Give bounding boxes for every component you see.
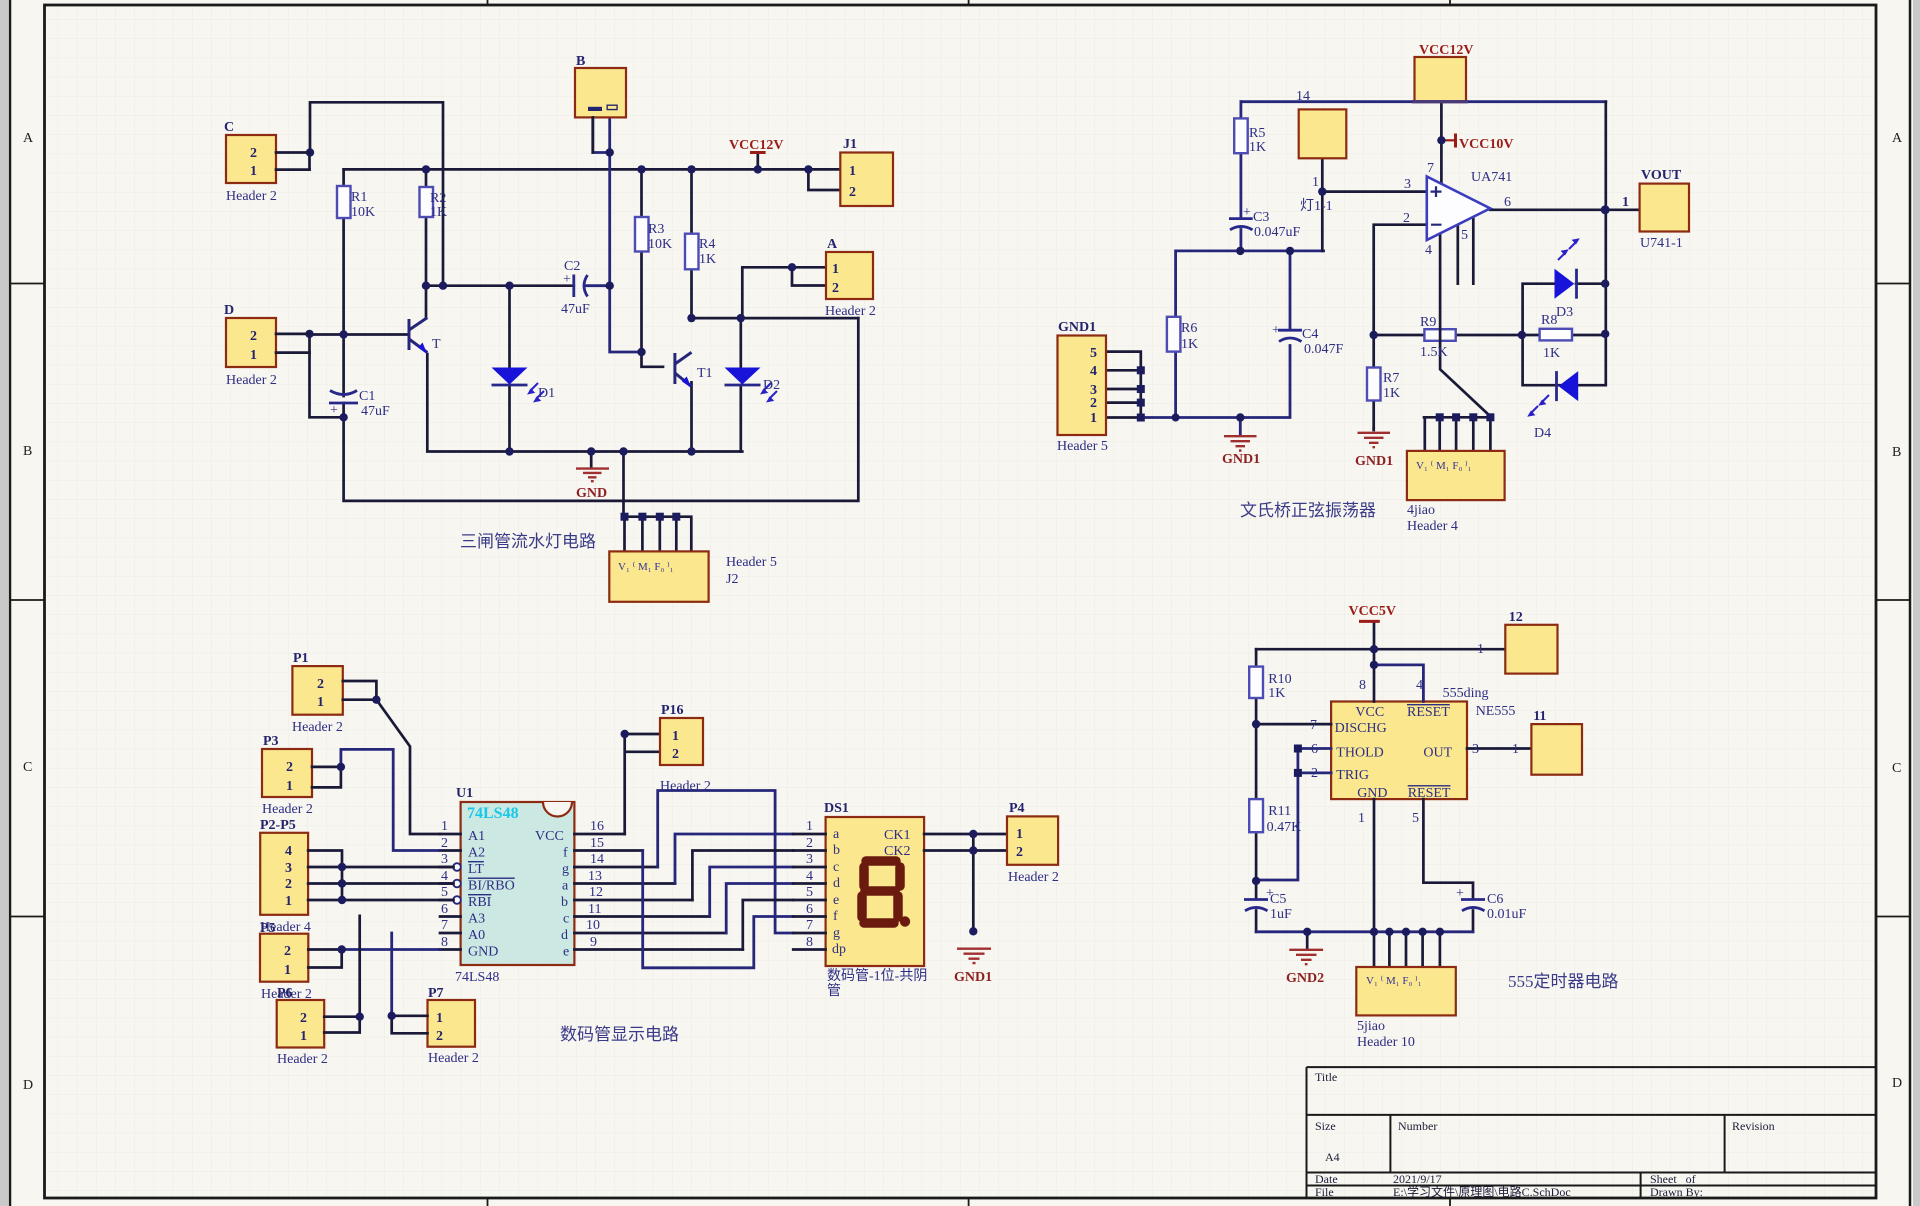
svg-text:Date: Date	[1315, 1172, 1338, 1186]
svg-text:1K: 1K	[1383, 386, 1400, 401]
svg-text:R4: R4	[699, 237, 715, 252]
svg-text:4: 4	[1416, 678, 1423, 693]
svg-text:Header 10: Header 10	[1357, 1035, 1415, 1050]
svg-text:2: 2	[806, 836, 813, 851]
svg-text:D: D	[1892, 1076, 1902, 1091]
svg-text:+: +	[1243, 205, 1251, 220]
svg-text:GND: GND	[468, 945, 498, 960]
svg-text:1: 1	[317, 695, 324, 710]
svg-text:1K: 1K	[1181, 337, 1198, 352]
svg-text:5: 5	[1461, 228, 1468, 243]
svg-text:UA741: UA741	[1471, 170, 1512, 185]
svg-text:R7: R7	[1383, 371, 1399, 386]
svg-text:Header 2: Header 2	[1008, 870, 1059, 885]
svg-text:12: 12	[589, 885, 603, 900]
svg-text:1K: 1K	[1249, 140, 1266, 155]
svg-text:16: 16	[590, 819, 604, 834]
svg-text:74LS48: 74LS48	[455, 970, 499, 985]
svg-text:Header 2: Header 2	[660, 779, 711, 794]
svg-text:GND1: GND1	[954, 970, 992, 985]
svg-text:C1: C1	[359, 389, 375, 404]
svg-text:D3: D3	[1556, 305, 1573, 320]
svg-text:D: D	[23, 1078, 33, 1093]
svg-text:三闸管流水灯电路: 三闸管流水灯电路	[460, 532, 596, 551]
svg-text:a: a	[833, 827, 840, 842]
svg-text:A2: A2	[468, 846, 485, 861]
svg-text:NE555: NE555	[1476, 704, 1516, 719]
svg-text:15: 15	[590, 836, 604, 851]
svg-text:D4: D4	[1534, 426, 1551, 441]
svg-text:R1: R1	[351, 190, 367, 205]
svg-text:C3: C3	[1253, 210, 1269, 225]
svg-text:7: 7	[1310, 718, 1317, 733]
svg-text:1K: 1K	[699, 252, 716, 267]
svg-text:555ding: 555ding	[1443, 686, 1489, 701]
svg-text:3: 3	[806, 852, 813, 867]
svg-text:47uF: 47uF	[361, 404, 390, 419]
svg-text:5: 5	[441, 885, 448, 900]
svg-text:10: 10	[586, 918, 600, 933]
svg-text:1: 1	[250, 164, 257, 179]
svg-text:R2: R2	[430, 191, 446, 206]
svg-text:RESET: RESET	[1407, 705, 1450, 720]
svg-text:1: 1	[441, 819, 448, 834]
svg-text:5: 5	[806, 885, 813, 900]
svg-text:P4: P4	[1009, 801, 1025, 816]
svg-text:1: 1	[1090, 411, 1097, 426]
svg-text:0.047uF: 0.047uF	[1254, 225, 1301, 240]
svg-text:1: 1	[1358, 811, 1365, 826]
svg-text:VCC12V: VCC12V	[1419, 43, 1473, 58]
svg-text:c: c	[833, 860, 839, 875]
svg-text:1: 1	[286, 779, 293, 794]
svg-text:BI/RBO: BI/RBO	[468, 879, 515, 894]
svg-text:A: A	[23, 131, 34, 146]
svg-text:1: 1	[849, 164, 856, 179]
svg-text:R8: R8	[1541, 313, 1557, 328]
svg-text:1K: 1K	[1268, 686, 1285, 701]
svg-text:6: 6	[1311, 742, 1318, 757]
svg-text:6: 6	[806, 902, 813, 917]
svg-text:管: 管	[827, 983, 841, 999]
svg-text:555定时器电路: 555定时器电路	[1508, 972, 1619, 991]
svg-text:5: 5	[1090, 346, 1097, 361]
svg-text:1uF: 1uF	[1270, 907, 1292, 922]
svg-text:2021/9/17: 2021/9/17	[1393, 1172, 1442, 1186]
svg-text:74LS48: 74LS48	[467, 805, 519, 822]
svg-text:TRIG: TRIG	[1336, 768, 1369, 783]
svg-text:e: e	[833, 893, 839, 908]
svg-text:3: 3	[285, 861, 292, 876]
svg-text:VCC12V: VCC12V	[729, 138, 783, 153]
svg-text:GND1: GND1	[1222, 452, 1260, 467]
svg-text:GND1: GND1	[1355, 454, 1393, 469]
svg-text:R5: R5	[1249, 126, 1265, 141]
svg-text:1: 1	[285, 894, 292, 909]
svg-text:+: +	[1272, 323, 1280, 338]
svg-text:2: 2	[672, 747, 679, 762]
svg-text:Sheet of: Sheet of	[1650, 1172, 1696, 1186]
svg-text:DISCHG: DISCHG	[1335, 721, 1387, 736]
svg-text:g: g	[562, 862, 569, 877]
svg-text:f: f	[833, 909, 838, 924]
svg-text:1K: 1K	[430, 205, 447, 220]
svg-text:R3: R3	[648, 222, 664, 237]
svg-text:File: File	[1315, 1185, 1334, 1199]
svg-text:1: 1	[436, 1011, 443, 1026]
svg-text:GND1: GND1	[1058, 320, 1096, 335]
svg-text:2: 2	[832, 281, 839, 296]
svg-text:P16: P16	[661, 703, 684, 718]
svg-text:A: A	[827, 237, 838, 252]
svg-text:7: 7	[1427, 161, 1434, 176]
svg-text:+: +	[563, 272, 571, 287]
svg-text:a: a	[562, 879, 569, 894]
svg-text:9: 9	[590, 935, 597, 950]
svg-text:C6: C6	[1487, 892, 1503, 907]
svg-text:+: +	[330, 403, 338, 418]
svg-text:13: 13	[588, 869, 602, 884]
svg-text:2: 2	[300, 1011, 307, 1026]
svg-text:D1: D1	[538, 386, 555, 401]
svg-text:14: 14	[1296, 89, 1310, 104]
svg-text:U1: U1	[456, 786, 473, 801]
svg-text:11: 11	[588, 902, 601, 917]
svg-text:Header 2: Header 2	[428, 1051, 479, 1066]
svg-text:8: 8	[1359, 678, 1366, 693]
svg-text:12: 12	[1509, 610, 1523, 625]
svg-text:10K: 10K	[648, 237, 672, 252]
svg-text:Header 2: Header 2	[226, 189, 277, 204]
svg-text:1: 1	[1512, 742, 1519, 757]
svg-text:D2: D2	[763, 378, 780, 393]
svg-text:J1: J1	[843, 137, 857, 152]
svg-text:R9: R9	[1420, 315, 1436, 330]
svg-text:5jiao: 5jiao	[1357, 1019, 1385, 1034]
svg-text:Header 2: Header 2	[226, 373, 277, 388]
svg-text:GND: GND	[1357, 786, 1387, 801]
svg-text:1: 1	[284, 963, 291, 978]
svg-text:4: 4	[806, 869, 813, 884]
svg-text:47uF: 47uF	[561, 302, 590, 317]
svg-text:e: e	[563, 945, 569, 960]
svg-text:d: d	[833, 876, 840, 891]
svg-text:V₁ ⁽ M₁ F₀ ⁾₁: V₁ ⁽ M₁ F₀ ⁾₁	[618, 561, 674, 573]
svg-text:Header 2: Header 2	[277, 1052, 328, 1067]
svg-text:B: B	[1892, 445, 1901, 460]
svg-text:P6: P6	[277, 986, 293, 1001]
svg-text:Number: Number	[1398, 1119, 1437, 1133]
svg-text:7: 7	[806, 918, 813, 933]
svg-text:THOLD: THOLD	[1336, 745, 1383, 760]
svg-text:C: C	[1892, 761, 1901, 776]
svg-text:CK1: CK1	[884, 828, 910, 843]
svg-text:4: 4	[285, 844, 292, 859]
svg-text:f: f	[563, 846, 568, 861]
svg-text:R10: R10	[1268, 672, 1291, 687]
svg-text:0.01uF: 0.01uF	[1487, 907, 1527, 922]
svg-text:OUT: OUT	[1423, 745, 1452, 760]
svg-text:2: 2	[849, 185, 856, 200]
svg-text:7: 7	[441, 918, 448, 933]
svg-text:数码管显示电路: 数码管显示电路	[560, 1025, 679, 1044]
svg-text:1: 1	[300, 1029, 307, 1044]
svg-text:A3: A3	[468, 912, 485, 927]
svg-text:10K: 10K	[351, 205, 375, 220]
svg-text:Size: Size	[1315, 1119, 1336, 1133]
svg-text:1K: 1K	[1543, 346, 1560, 361]
svg-text:D: D	[224, 303, 234, 318]
svg-text:14: 14	[590, 852, 604, 867]
svg-text:C: C	[224, 120, 234, 135]
svg-text:P1: P1	[293, 651, 309, 666]
svg-text:J2: J2	[726, 572, 738, 587]
svg-text:2: 2	[286, 760, 293, 775]
svg-text:VCC: VCC	[535, 829, 564, 844]
svg-text:Header 2: Header 2	[292, 720, 343, 735]
svg-text:Header 2: Header 2	[262, 802, 313, 817]
svg-text:11: 11	[1533, 709, 1546, 724]
svg-text:A1: A1	[468, 829, 485, 844]
svg-text:C2: C2	[564, 259, 580, 274]
svg-text:c: c	[563, 912, 569, 927]
svg-text:+: +	[1456, 886, 1464, 901]
svg-text:P7: P7	[428, 986, 444, 1001]
svg-text:2: 2	[441, 836, 448, 851]
svg-text:2: 2	[1090, 396, 1097, 411]
svg-text:5: 5	[1412, 811, 1419, 826]
svg-text:GND: GND	[576, 486, 607, 501]
svg-text:V₁ ⁽ M₁ F₀ ⁾₁: V₁ ⁽ M₁ F₀ ⁾₁	[1416, 460, 1472, 472]
svg-text:A0: A0	[468, 928, 485, 943]
svg-text:T: T	[432, 337, 441, 352]
svg-text:3: 3	[1472, 742, 1479, 757]
svg-text:Header 5: Header 5	[1057, 439, 1108, 454]
svg-text:灯1-1: 灯1-1	[1300, 198, 1333, 214]
svg-text:A: A	[1892, 131, 1903, 146]
svg-text:6: 6	[441, 902, 448, 917]
svg-text:VCC5V: VCC5V	[1349, 604, 1396, 619]
svg-text:2: 2	[1016, 845, 1023, 860]
svg-text:g: g	[833, 926, 840, 941]
svg-text:1: 1	[1622, 195, 1629, 210]
svg-text:C4: C4	[1302, 327, 1318, 342]
svg-text:1: 1	[250, 348, 257, 363]
svg-text:2: 2	[1311, 766, 1318, 781]
svg-text:P3: P3	[263, 734, 279, 749]
svg-text:E:\学习文件\原理图\电路C.SchDoc: E:\学习文件\原理图\电路C.SchDoc	[1393, 1184, 1571, 1199]
svg-text:Drawn By:: Drawn By:	[1650, 1185, 1703, 1199]
svg-text:2: 2	[250, 146, 257, 161]
svg-text:RESET: RESET	[1408, 786, 1451, 801]
svg-text:数码管-1位-共阴: 数码管-1位-共阴	[827, 968, 927, 984]
svg-text:4: 4	[1090, 364, 1097, 379]
svg-text:3: 3	[1404, 177, 1411, 192]
svg-text:T1: T1	[697, 366, 713, 381]
svg-text:2: 2	[284, 944, 291, 959]
svg-text:8: 8	[806, 935, 813, 950]
svg-text:0.047F: 0.047F	[1304, 342, 1344, 357]
svg-text:1: 1	[1312, 175, 1319, 190]
svg-text:P2-P5: P2-P5	[260, 818, 296, 833]
svg-text:DS1: DS1	[824, 801, 849, 816]
svg-text:dp: dp	[832, 942, 846, 957]
svg-text:LT: LT	[468, 862, 484, 877]
svg-text:b: b	[561, 895, 568, 910]
svg-text:1: 1	[806, 819, 813, 834]
svg-text:文氏桥正弦振荡器: 文氏桥正弦振荡器	[1240, 501, 1376, 520]
svg-text:d: d	[561, 928, 568, 943]
svg-text:Title: Title	[1315, 1070, 1337, 1084]
svg-text:2: 2	[285, 877, 292, 892]
svg-text:8: 8	[441, 935, 448, 950]
svg-text:A4: A4	[1325, 1150, 1340, 1164]
svg-text:RBI: RBI	[468, 895, 492, 910]
svg-text:GND2: GND2	[1286, 971, 1324, 986]
svg-text:3: 3	[441, 852, 448, 867]
svg-text:R11: R11	[1268, 804, 1291, 819]
svg-text:2: 2	[1403, 211, 1410, 226]
svg-text:▬ ▭: ▬ ▭	[588, 100, 619, 115]
svg-text:Header 4: Header 4	[1407, 519, 1458, 534]
svg-text:VOUT: VOUT	[1641, 168, 1682, 183]
svg-text:4: 4	[1425, 243, 1432, 258]
svg-text:b: b	[833, 843, 840, 858]
svg-text:R6: R6	[1181, 321, 1197, 336]
svg-text:4: 4	[441, 869, 448, 884]
svg-text:4jiao: 4jiao	[1407, 503, 1435, 518]
svg-text:2: 2	[317, 677, 324, 692]
svg-text:1: 1	[1016, 827, 1023, 842]
svg-text:Header 2: Header 2	[825, 304, 876, 319]
svg-text:2: 2	[250, 329, 257, 344]
svg-text:C: C	[23, 760, 32, 775]
svg-text:VCC: VCC	[1355, 705, 1384, 720]
svg-text:Header 5: Header 5	[726, 555, 777, 570]
svg-text:U741-1: U741-1	[1640, 236, 1683, 251]
svg-text:B: B	[23, 444, 32, 459]
svg-text:6: 6	[1504, 195, 1511, 210]
svg-text:1.5K: 1.5K	[1420, 345, 1448, 360]
svg-text:1: 1	[672, 729, 679, 744]
svg-text:1: 1	[1477, 642, 1484, 657]
svg-text:1: 1	[832, 262, 839, 277]
svg-text:VCC10V: VCC10V	[1459, 137, 1513, 152]
svg-text:2: 2	[436, 1029, 443, 1044]
svg-text:Revision: Revision	[1732, 1119, 1775, 1133]
svg-text:B: B	[576, 54, 585, 69]
svg-text:0.47K: 0.47K	[1267, 820, 1302, 835]
svg-text:V₁ ⁽ M₁ F₀ ⁾₁: V₁ ⁽ M₁ F₀ ⁾₁	[1366, 975, 1422, 987]
svg-text:C5: C5	[1270, 892, 1286, 907]
